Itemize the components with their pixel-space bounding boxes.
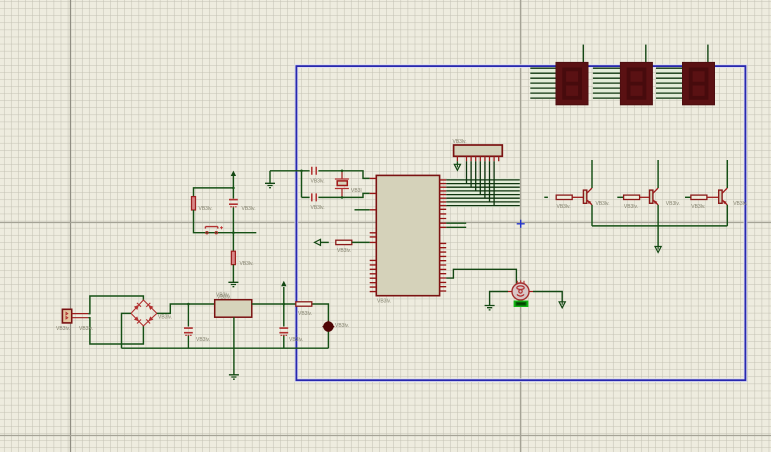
svg-text:VB3lv.: VB3lv. [298, 311, 312, 317]
motor M1 [508, 280, 533, 300]
display DS2 [620, 62, 652, 104]
bottom rail wire [122, 347, 329, 349]
wire Q3 collector [726, 160, 728, 188]
wire motor left to ground [490, 292, 508, 306]
motor rpm label (green box) [514, 301, 529, 308]
svg-text:VB3lv.: VB3lv. [242, 206, 256, 212]
transistor Q1 [583, 188, 592, 205]
wire regulator ground pin [233, 317, 235, 374]
connector J1 [62, 309, 88, 323]
capacitor C2 (output) [279, 327, 288, 335]
wires display3 segments [656, 68, 683, 98]
wire R1 bottom to button row [194, 210, 257, 233]
wire terminal to R3 [321, 241, 329, 243]
svg-text:VB3lv.: VB3lv. [335, 323, 349, 329]
ground (regulator) [229, 375, 239, 379]
respack pins [457, 156, 498, 161]
wire stub MCU pin3 [355, 209, 370, 211]
capacitor C4 [312, 167, 316, 175]
bus highlight tint [447, 178, 520, 207]
resistor R1 (vertical) [192, 197, 196, 210]
capacitor C3 (reset electrolytic) [229, 199, 238, 207]
major grid line vertical x=70 [70, 0, 72, 452]
wire regulator output [252, 304, 329, 322]
svg-text:VB3lv.: VB3lv. [311, 179, 325, 185]
svg-text:VB3l: VB3l [351, 188, 362, 194]
wire crystal bottom row [302, 193, 370, 197]
capacitor C5 [312, 193, 316, 201]
wires display2 segments [593, 68, 621, 98]
resistor R6 [556, 195, 572, 199]
MCU left pins [370, 178, 377, 291]
power terminal arrow (VCC) [281, 281, 286, 286]
svg-text:VB3lv.: VB3lv. [79, 326, 93, 332]
LED D5 [322, 320, 334, 348]
svg-text:VB3lv.: VB3lv. [733, 201, 747, 207]
crystal X1 [335, 170, 349, 199]
resistor R3 [336, 240, 352, 244]
major grid line horizontal y=435 [0, 435, 771, 437]
respack vertical wires (staircase) [467, 161, 495, 205]
lead R8 to Q3 [707, 196, 719, 198]
wire display2 anode [645, 45, 647, 63]
junction dot reset top [232, 187, 235, 190]
respack body [454, 145, 503, 156]
wire base Q3 [685, 196, 691, 198]
MCU right pins [440, 180, 447, 291]
resistor R5 (LED series) [296, 302, 312, 306]
junction dot button row [232, 231, 235, 234]
terminal arrow (motor right) [559, 302, 565, 308]
voltage regulator U2 [215, 300, 252, 318]
wire reset top [194, 176, 234, 199]
resistor R8 [691, 195, 707, 199]
svg-text:VB3lv.: VB3lv. [217, 295, 231, 301]
wire Q1 collector [591, 160, 593, 188]
ground (motor) [485, 306, 495, 310]
emitter common rail [592, 225, 727, 227]
svg-text:VB3lv.: VB3lv. [624, 204, 638, 210]
wire Q3 emitter [726, 205, 728, 226]
wire Q2 collector [657, 160, 659, 188]
svg-text:VB3lv.: VB3lv. [158, 315, 172, 321]
wires display1 segments [530, 68, 556, 98]
sheet border (blue rectangle) [296, 66, 745, 380]
wire connector pin2 to bridge bottom [88, 318, 143, 344]
wire crystal left vertical [301, 171, 303, 198]
wire rail to terminal [657, 226, 659, 247]
display3 bundle tint [656, 67, 683, 99]
svg-text:VB3lv.: VB3lv. [453, 139, 467, 145]
transistor Q2 [650, 188, 659, 205]
svg-text:VB3lv.: VB3lv. [311, 205, 325, 211]
wire base Q1 [544, 196, 548, 198]
major grid line horizontal y=222 [0, 222, 771, 224]
resistor R7 [624, 195, 640, 199]
svg-text:VB3lv.: VB3lv. [56, 326, 70, 332]
wires MCU right port stubs [446, 223, 466, 227]
wire display3 anode [707, 45, 709, 63]
svg-text:VB3lv.: VB3lv. [666, 201, 680, 207]
MCU body [376, 175, 439, 295]
push button SW1 [205, 226, 223, 234]
wire MCU to motor [446, 269, 516, 283]
wire crystal top row [270, 171, 370, 179]
origin cross marker [517, 220, 525, 228]
wire C3 bottom to button row [232, 207, 234, 251]
ground (reset) [228, 282, 238, 286]
svg-text:VB3lv.: VB3lv. [240, 261, 254, 267]
display1 bundle tint [530, 67, 556, 99]
terminal arrow respack pin1 [454, 161, 460, 170]
wire Q2 emitter [657, 205, 659, 226]
display2 bundle tint [593, 67, 621, 99]
wire connector pin1 to bridge top [88, 296, 143, 314]
lead R7 to Q2 [640, 196, 650, 198]
display DS1 [556, 62, 588, 104]
svg-text:VB3lv.: VB3lv. [196, 337, 210, 343]
transistor Q3 [719, 188, 728, 205]
power terminal arrow (reset) [231, 171, 236, 176]
bridge rectifier D1-D4 [131, 300, 157, 326]
wire display1 anode [582, 45, 584, 63]
svg-text:VB3lv.: VB3lv. [691, 204, 705, 210]
wire R3 to MCU [352, 241, 370, 243]
svg-text:VB3lv.: VB3lv. [337, 248, 351, 254]
lead R6 to Q1 [572, 196, 583, 198]
wire bridge left vertex to bottom rail [122, 313, 132, 348]
svg-text:VB3lv.: VB3lv. [596, 201, 610, 207]
wire bridge right vertex to regulator input [157, 304, 215, 313]
display DS3 [683, 62, 715, 104]
ground (crystal) [265, 171, 275, 188]
wire Q1 emitter [591, 205, 593, 226]
major grid line vertical x=520 [520, 0, 522, 452]
terminal arrow (rail) [655, 247, 661, 253]
input terminal arrow (left) [315, 239, 321, 245]
port wires MCU to bus (horizontal) [446, 180, 520, 206]
wire base Q2 [617, 196, 623, 198]
wire R2 to ground [232, 265, 234, 282]
resistor R2 (vertical lower) [231, 251, 235, 264]
svg-text:VB3lv.: VB3lv. [377, 299, 391, 305]
junction dot crystal left [300, 170, 303, 173]
svg-text:VB3lv.: VB3lv. [199, 206, 213, 212]
junction dot C2/rail [283, 303, 286, 306]
svg-text:VB3lv.: VB3lv. [289, 337, 303, 343]
svg-text:VB3lv.: VB3lv. [557, 204, 571, 210]
wire power arrow stem to rail and C2 [283, 287, 285, 348]
capacitor C1 (smoothing) [184, 303, 193, 349]
wire motor right to terminal [533, 292, 562, 302]
